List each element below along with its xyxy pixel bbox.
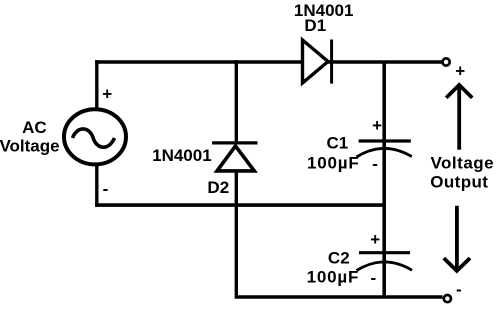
capacitor C2 top plate bbox=[359, 251, 410, 254]
diode D2 cathode bar bbox=[212, 141, 257, 144]
wire D2 branch vertical lower (through middle rail to bottom rail) bbox=[235, 170, 238, 299]
wire AC source bottom to middle rail bbox=[95, 162, 98, 207]
svg-text:Voltage: Voltage bbox=[430, 154, 494, 173]
capacitor C1 top plate bbox=[359, 139, 411, 142]
svg-text:+: + bbox=[455, 62, 465, 81]
wire left vertical (top rail to AC source) bbox=[95, 60, 98, 112]
wire D2 branch vertical upper bbox=[235, 60, 238, 144]
wire bottom rail bbox=[236, 295, 443, 299]
wire top rail bbox=[95, 60, 442, 64]
arrow down (output polarity indicator) bbox=[455, 206, 459, 270]
svg-text:-: - bbox=[372, 155, 378, 174]
AC source circle bbox=[64, 109, 126, 164]
svg-text:-: - bbox=[370, 268, 376, 287]
wire middle rail bbox=[95, 203, 384, 207]
svg-text:Output: Output bbox=[430, 173, 488, 192]
svg-text:+: + bbox=[372, 116, 382, 135]
svg-text:C1: C1 bbox=[327, 134, 349, 153]
svg-text:-: - bbox=[103, 180, 109, 199]
svg-text:C2: C2 bbox=[328, 248, 350, 267]
svg-text:1N4001: 1N4001 bbox=[152, 146, 212, 165]
diode D1 triangle bbox=[303, 40, 329, 83]
output terminal - (open circle) bbox=[444, 295, 451, 302]
svg-text:+: + bbox=[370, 230, 380, 249]
svg-text:D2: D2 bbox=[207, 178, 229, 197]
svg-text:-: - bbox=[456, 280, 462, 299]
wire right vertical (top rail through C1 and C2 to bottom rail) bbox=[382, 62, 386, 298]
svg-text:100µF: 100µF bbox=[307, 154, 360, 173]
capacitor C1 curved plate bbox=[356, 148, 411, 157]
arrow up (output polarity indicator) bbox=[457, 86, 461, 150]
svg-text:AC: AC bbox=[22, 118, 47, 137]
svg-text:D1: D1 bbox=[304, 16, 326, 35]
output terminal + (open circle) bbox=[443, 58, 450, 65]
AC source sine wave bbox=[73, 129, 115, 147]
svg-text:+: + bbox=[102, 84, 112, 103]
diode D1 cathode bar bbox=[330, 40, 333, 84]
svg-text:Voltage: Voltage bbox=[0, 137, 60, 156]
capacitor C2 curved plate bbox=[357, 262, 413, 271]
diode D2 triangle bbox=[217, 146, 254, 171]
svg-text:100µF: 100µF bbox=[307, 268, 360, 287]
